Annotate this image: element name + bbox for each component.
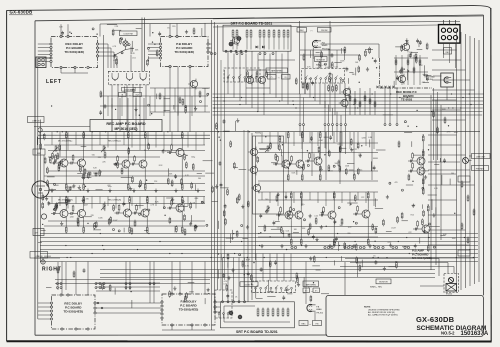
- wire rec head feed: [446, 87, 448, 100]
- wire line-in horizontal: [34, 126, 90, 128]
- rec amp rail y221: [48, 220, 205, 222]
- junction node left edge column 10: [51, 105, 52, 106]
- wire segment h left edge column 0: [41, 229, 46, 231]
- wire segment h rec-amp upper 31: [47, 176, 55, 178]
- svg-text:C22: C22: [361, 197, 364, 199]
- junction node pb-amp lower 5: [350, 204, 351, 205]
- transistor Q20 (bias amp) emitter resistor: [427, 245, 429, 253]
- resistor right-col R3: [473, 209, 475, 216]
- capacitor C244: [288, 233, 291, 238]
- resistor R388: [226, 284, 228, 291]
- wire drop to bottom dolby 2: [75, 262, 77, 296]
- wire pb amp vert 5: [371, 132, 373, 180]
- junction node left edge column 5: [42, 224, 43, 225]
- bus junction 54: [373, 245, 374, 246]
- junction pin row-A 12: [377, 246, 379, 248]
- wire segment h right column 23: [386, 230, 392, 232]
- bus junction 18: [223, 257, 224, 258]
- junction node bottom dolby wiring 13: [130, 291, 131, 292]
- upper mid drop 3: [174, 88, 176, 112]
- junction node right column 17: [454, 213, 455, 214]
- connector J5 (left edge): [36, 57, 46, 68]
- terminal top center-right 0: [342, 79, 344, 81]
- resistor R100 (SRT top board): [232, 29, 234, 39]
- transistor Q12 (pb amp L2) base cap: [287, 163, 294, 166]
- junction node pb-amp upper 25: [288, 168, 289, 169]
- resistor osc R4: [364, 95, 366, 102]
- bottom rail pin 1: [57, 283, 59, 285]
- wire segment v top center-right 3: [312, 48, 314, 59]
- wire vertical x248: [247, 130, 249, 302]
- wire mic jack lead: [43, 155, 45, 183]
- upper mid drop 4: [184, 88, 186, 112]
- resistor R109: [131, 227, 133, 234]
- potentiometer VR6 (pb level R): [265, 206, 270, 212]
- wire connector down 3: [455, 43, 457, 68]
- svg-text:100μ: 100μ: [108, 186, 112, 188]
- terminal upper inter-band 22: [185, 105, 187, 107]
- transistor Q12 (pb amp L2) bias resistor: [291, 155, 293, 164]
- wire bottom-right route 2a: [350, 262, 448, 264]
- resistor R45: [185, 161, 187, 168]
- svg-text:560: 560: [277, 227, 280, 229]
- wire below rec-dolby rail: [61, 72, 88, 74]
- ground right column 18: [386, 195, 389, 199]
- junction pin row-A 13: [382, 246, 384, 248]
- transistor Q6 (rec amp R1) collector node: [66, 196, 67, 197]
- terminal rec-amp lower 47: [148, 209, 150, 211]
- resistor R383: [297, 276, 299, 283]
- DOLBY NR drop 3: [126, 85, 128, 132]
- DOLBY NR label box (lower): [122, 87, 136, 91]
- DOLBY NR drop 4: [132, 85, 134, 120]
- transistor Q1 (rec amp L1) base cap: [51, 162, 58, 165]
- wire pb head feed (bottom): [305, 262, 307, 305]
- resistor right-extra 1: [433, 111, 435, 118]
- wire segment h pb-amp upper 19: [349, 169, 354, 171]
- svg-text:C22: C22: [358, 263, 361, 265]
- wire right col low horiz 9: [428, 244, 470, 246]
- resistor R33: [87, 172, 89, 179]
- transistor Q13 (pb amp L3) base cap: [305, 160, 312, 163]
- wire P.B DOLBY in 1: [148, 43, 159, 45]
- junction node rec-amp upper 59: [85, 186, 86, 187]
- terminal right column 43: [404, 121, 406, 123]
- phones jack circle: [463, 158, 469, 164]
- transistor Q15 (pb amp R2) collector resistor: [300, 192, 302, 200]
- wire comb rec-upper 17: [187, 132, 189, 148]
- wire drop to srt-bottom 3: [233, 258, 235, 301]
- svg-text:100μ: 100μ: [191, 157, 195, 159]
- transistor Q7 (rec amp R2) emitter resistor: [83, 226, 85, 234]
- transistor Q15 (pb amp R2) collector wire: [300, 198, 302, 209]
- capacitor C259: [443, 158, 446, 163]
- capacitor C354: [416, 39, 419, 44]
- junction pin row-A 6: [344, 246, 346, 248]
- pb amp rail y171: [258, 170, 378, 172]
- wire inter-band vert 2: [121, 96, 123, 116]
- wire bus mid-right 3: [213, 100, 484, 102]
- svg-text:LINE IN: LINE IN: [32, 120, 40, 122]
- wire bottom-right route 3a: [340, 266, 454, 268]
- transistor Q11 (pb amp L1) emitter resistor: [287, 174, 289, 182]
- svg-text:470: 470: [395, 182, 398, 184]
- transistor Q10 (rec amp R5) bias resistor: [171, 199, 173, 208]
- transistor Q13 (pb amp L3): [312, 155, 322, 167]
- resistor right-col R4: [461, 223, 463, 230]
- REC MODE board junction pins: [376, 86, 394, 88]
- transistor Q11 (pb amp L1) collector resistor: [287, 131, 289, 139]
- resistor R265: [383, 219, 385, 226]
- wire right col low horiz 4: [428, 169, 470, 171]
- wire drop srt 8: [269, 54, 271, 95]
- resistor R193: [318, 146, 320, 153]
- rec amp rail y150: [48, 150, 205, 152]
- capacitor C15: [89, 171, 92, 176]
- resistor R446: [185, 106, 187, 113]
- junction node pb-amp lower 39: [374, 241, 375, 242]
- junction node upper inter-band 4: [115, 109, 116, 110]
- wire drop to speed-sw 4: [276, 254, 278, 282]
- wire drop to speed-sw 3: [269, 254, 271, 282]
- resistor R183: [339, 146, 341, 153]
- wire rec-mode vert 1: [395, 55, 397, 85]
- P.B DOLBY P.C BOARD (left channel) TD-5301: [159, 35, 209, 67]
- svg-text:0.22: 0.22: [348, 227, 352, 229]
- transistor Q12 (pb amp L2): [294, 158, 304, 170]
- wire segment h pb-amp lower 35: [347, 202, 358, 204]
- bias trap transformer box: [446, 284, 457, 292]
- terminal rec-amp lower 18: [118, 230, 120, 232]
- wire segment h right column 4: [404, 131, 412, 133]
- wire bus bottom 2: [100, 273, 435, 275]
- transistor Q16 (pb amp R3): [326, 209, 336, 221]
- wire pb head return: [314, 312, 316, 321]
- wire drop bottom extra 3: [149, 262, 151, 304]
- wire segment v top right 7: [423, 65, 425, 76]
- wire segment v pb-amp upper 33: [369, 139, 371, 147]
- SRT bottom board pin 4: [238, 301, 240, 303]
- wire segment h top center-right 21: [316, 52, 320, 54]
- wire comb rec-upper 15: [163, 132, 165, 150]
- wire segment h top center-right 12: [365, 48, 373, 50]
- resistor R236: [372, 223, 374, 230]
- bus junction 56: [337, 233, 338, 234]
- wire comb rec-lower 7: [99, 197, 101, 204]
- wire pb amp vert 2: [325, 132, 327, 180]
- resistor R241: [355, 243, 357, 250]
- wire segment h right column 16: [383, 114, 393, 116]
- bus junction 71: [407, 97, 408, 98]
- capacitor C171: [373, 166, 376, 171]
- ground rec-amp upper 21: [78, 185, 81, 189]
- resistor right-extra 3: [444, 117, 446, 124]
- wire segment h pb-amp upper 9: [376, 149, 386, 151]
- transistor Q9 (rec amp R4): [139, 207, 149, 219]
- wire segment v top center-right 35: [347, 78, 349, 84]
- transistor Q10 (rec amp R5) emitter wire: [181, 214, 183, 228]
- transistor Q20 (bias amp) emitter wire: [427, 235, 429, 246]
- junction pin row-A 15: [395, 246, 397, 248]
- resistor rec-mode R5: [419, 59, 421, 66]
- resistor R24: [192, 163, 194, 170]
- wire segment h rec-amp lower 23: [177, 206, 188, 208]
- wire rec-mode vert 3: [407, 55, 409, 85]
- pb amp rail y143: [258, 142, 378, 144]
- wire segment h bottom center 13: [267, 296, 275, 298]
- wire comb pb-lower 3: [277, 192, 279, 206]
- wire segment h rec-amp upper 52: [66, 186, 73, 188]
- wire segment v upper inter-band 23: [111, 104, 113, 108]
- bus junction 57: [100, 233, 101, 234]
- wire segment v top-left inter-board 13: [148, 56, 150, 61]
- resistor R4: [80, 165, 82, 172]
- wire P.B DOLBY out 2: [209, 47, 211, 49]
- wire pb dolby r bottom rail: [162, 329, 215, 331]
- wire drop srt 10: [281, 54, 283, 102]
- transistor Q17 (pb amp R4) base cap: [353, 213, 360, 216]
- wire below pinrow 7: [340, 126, 342, 149]
- wire segment v pb-amp lower 12: [283, 230, 285, 238]
- wire segment v bottom dolby wiring 3: [131, 300, 133, 308]
- wire bus center 3: [40, 241, 478, 243]
- wire segment h center column 5: [223, 130, 229, 132]
- bus junction 64: [103, 249, 104, 250]
- transistor Q2 (rec amp L2) base cap: [69, 162, 76, 165]
- resistor R422: [47, 180, 49, 187]
- resistor upper-mid 2: [179, 97, 181, 104]
- right col box 1: [458, 176, 470, 182]
- wire line-in bottom lead: [42, 258, 44, 264]
- wire bus right vertical 6: [478, 40, 480, 282]
- transistor Q4 (rec amp L4) collector resistor: [144, 131, 146, 139]
- wire segment v pb-amp lower 34: [278, 212, 280, 221]
- wire segment h right column 31: [402, 246, 408, 248]
- bus junction 73: [264, 257, 265, 258]
- wire comb rec-upper 3: [67, 132, 69, 150]
- junction node top center-right 5: [372, 57, 373, 58]
- wire segment v top center-right 34: [344, 49, 346, 60]
- wire drop srt 7: [263, 51, 265, 115]
- junction pin row-C 3: [236, 53, 238, 55]
- terminal pb-amp lower 32: [304, 219, 306, 221]
- svg-text:0.047: 0.047: [408, 54, 413, 56]
- bottom rail pin 8: [149, 283, 151, 285]
- transistor Q15 (pb amp R2) emitter resistor: [300, 238, 302, 246]
- wire top bus 3: [213, 25, 438, 27]
- speed 7-1/2 label (bottom): [303, 288, 310, 293]
- resistor R321: [332, 85, 334, 92]
- wire drop monitor-sw 9: [344, 83, 346, 98]
- transistor Q19 (line amp 2) collector wire: [422, 156, 424, 165]
- bus junction 95: [378, 257, 379, 258]
- wire segment h top right 5: [417, 48, 423, 50]
- wire segment h top right 19: [411, 52, 418, 54]
- transistor Q18 (line amp) collector wire: [422, 141, 424, 155]
- resistor R274: [408, 174, 410, 181]
- transistor Q27 (muting 1): [248, 147, 257, 158]
- transistor Q5 (rec amp L5) collector resistor: [181, 131, 183, 139]
- ground bottom center 8: [227, 276, 230, 280]
- transistor Q14 (pb amp R1) collector wire: [290, 198, 292, 209]
- wire drop srt 6: [257, 54, 259, 112]
- terminal pb-amp lower 21: [285, 196, 287, 198]
- junction node pb-amp lower 30: [353, 221, 354, 222]
- terminal pb-amp lower 22: [355, 222, 357, 224]
- ground center column 35: [215, 184, 218, 188]
- wire segment h dolby top wiring 3: [136, 27, 142, 29]
- transistor Q19 (line amp 2) bias resistor: [412, 162, 414, 171]
- transistor Q6 (rec amp R1) base cap: [51, 212, 58, 215]
- wire drop dolby-nr 2: [119, 98, 121, 132]
- transistor Q10 (rec amp R5) collector resistor: [181, 196, 183, 204]
- wire segment v bottom center 3: [217, 270, 219, 279]
- resistor osc R1: [349, 95, 351, 102]
- wire mic to amp: [49, 189, 56, 191]
- transistor Q6 (rec amp R1) emitter resistor: [65, 226, 67, 234]
- svg-text:PHONES: PHONES: [476, 168, 485, 170]
- transistor Q12 (pb amp L2) emitter wire: [301, 170, 303, 175]
- wire comb rec-upper 5: [83, 132, 85, 148]
- transistor Q10 (rec amp R5) base cap: [167, 207, 174, 210]
- transistor Q14 (pb amp R1) bias resistor: [280, 206, 282, 215]
- resistor R61: [184, 214, 186, 221]
- transistor Q20 (bias amp) collector node: [428, 204, 429, 205]
- junction node rec-amp upper 34: [186, 155, 187, 156]
- svg-text:TAPE SPEED: TAPE SPEED: [271, 70, 283, 73]
- wire comb rec-upper 19: [203, 132, 205, 145]
- resistor R158: [345, 168, 347, 175]
- transistor Q3 (rec amp L3) emitter wire: [127, 170, 129, 185]
- DOLBY NR sw contact pair 2: [127, 73, 133, 81]
- wire drop top bus 3: [99, 24, 101, 37]
- SRT top diode D102: [262, 46, 264, 49]
- wire segment h rec-amp upper 18: [205, 172, 214, 174]
- resistor R423: [40, 143, 42, 150]
- wire bottom-right route 1a: [345, 258, 439, 260]
- terminal rec-amp lower 14: [139, 213, 141, 215]
- wire comb pb-lower 11: [341, 192, 343, 203]
- resistor R127: [216, 122, 218, 129]
- wire comb pb-lower 13: [357, 192, 359, 200]
- wire segment v bottom right 5: [340, 256, 342, 261]
- capacitor C374: [222, 273, 225, 278]
- wire segment v top right 13: [418, 41, 420, 47]
- wire segment v rec-amp lower 32: [190, 215, 192, 224]
- wire left vertical 1: [37, 58, 39, 319]
- capacitor C353: [419, 40, 422, 45]
- junction pin row-A 4: [327, 246, 329, 248]
- wire drop to bottom dolby 7: [204, 262, 206, 295]
- bus junction 77: [91, 253, 92, 254]
- transistor Q3 (rec amp L3) base cap: [113, 163, 120, 166]
- wire drop to speed-sw 2: [262, 254, 264, 282]
- resistor R369: [242, 260, 244, 267]
- schematic frame right: [482, 15, 484, 295]
- mic jack inner detail: [36, 186, 45, 193]
- resistor R25: [84, 168, 86, 175]
- wire comb rec-upper 9: [115, 132, 117, 150]
- junction node right column 8: [416, 110, 417, 111]
- junction pin row-A 9: [359, 246, 361, 248]
- wire REC DOLBY out 2: [99, 47, 111, 49]
- resistor rec-mode R3: [407, 59, 409, 66]
- transistor Q9 (rec amp R4) collector wire: [146, 203, 148, 208]
- wire P.B DOLBY out 3: [209, 51, 211, 53]
- wire comb rec-lower 6: [91, 197, 93, 209]
- ground bottom center 30: [297, 283, 300, 287]
- junction pin row-C 2: [214, 53, 216, 55]
- junction node top-left inter-board 9: [154, 44, 155, 45]
- MONITOR label (bottom right): [376, 279, 391, 284]
- wire below pinrow 8: [345, 126, 347, 155]
- svg-text:DOLBY NR: DOLBY NR: [124, 34, 134, 36]
- wire below pinrow 1: [299, 126, 301, 137]
- P.B HEAD PH-350 (left channel): [312, 40, 327, 47]
- transistor Q10 (rec amp R5) emitter resistor: [181, 226, 183, 234]
- transistor Q5 (rec amp L5) emitter wire: [181, 158, 183, 184]
- terminal right column 7: [429, 223, 431, 225]
- svg-text:NOTE:: NOTE:: [364, 307, 371, 309]
- wire P.B DOLBY in 2: [148, 47, 159, 49]
- wire drop rec-mode 2: [389, 88, 391, 124]
- resistor right-extra 2: [437, 127, 439, 134]
- resistor R191: [319, 165, 321, 172]
- wire comb rec-upper 1: [51, 132, 53, 145]
- wire center vertical 1: [211, 20, 213, 330]
- svg-text:0.047: 0.047: [319, 140, 324, 142]
- svg-text:REC: REC: [302, 323, 307, 325]
- resistor sw-amp 2: [256, 71, 258, 78]
- capacitor C339: [396, 75, 399, 80]
- junction pin row-A 11: [374, 246, 376, 248]
- svg-text:1501637A: 1501637A: [461, 331, 489, 337]
- transistor Q3 (rec amp L3) bias resistor: [117, 155, 119, 164]
- terminal pb-amp lower 0: [277, 194, 279, 196]
- wire comb rec-upper 14: [155, 132, 157, 148]
- wire segment h bottom center 11: [285, 288, 290, 290]
- wire segment v center column 13: [227, 262, 229, 267]
- resistor R165: [328, 164, 330, 171]
- transistor Q13 (pb amp L3) collector resistor: [319, 131, 321, 139]
- transistor Q1 (rec amp L1) emitter wire: [65, 169, 67, 185]
- terminal rec-amp upper 29: [54, 160, 56, 162]
- capacitor C325: [346, 67, 349, 72]
- ground rail left 2: [66, 189, 69, 193]
- resistor R403: [359, 264, 361, 271]
- wire segment v center column 29: [217, 221, 219, 229]
- ground rail left 6: [154, 189, 157, 193]
- svg-text:REC LEVEL(R): REC LEVEL(R): [108, 200, 121, 202]
- transistor Q4 (rec amp L4) base cap: [130, 163, 137, 166]
- wire drop top bus 6: [176, 23, 178, 36]
- terminal rec-amp lower 40: [163, 207, 165, 209]
- resistor rec-mode R2: [401, 67, 403, 74]
- wire comb pb-upper 6: [301, 132, 303, 149]
- ground right column 44: [389, 243, 392, 247]
- resistor R316: [321, 51, 323, 58]
- ground pb-amp lower 44: [315, 238, 318, 242]
- resistor R28: [59, 144, 61, 151]
- transistor Q8 (rec amp R3) collector node: [129, 196, 130, 197]
- speed 7-1/2 label (top): [268, 75, 277, 80]
- wire drop to bottom dolby 6: [191, 262, 193, 295]
- transistor Q1 (rec amp L1) collector node: [66, 131, 67, 132]
- transistor Q2 (rec amp L2) collector wire: [83, 138, 85, 157]
- bus junction 44: [326, 257, 327, 258]
- wire vertical x252: [251, 133, 253, 300]
- resistor R267: [422, 218, 424, 225]
